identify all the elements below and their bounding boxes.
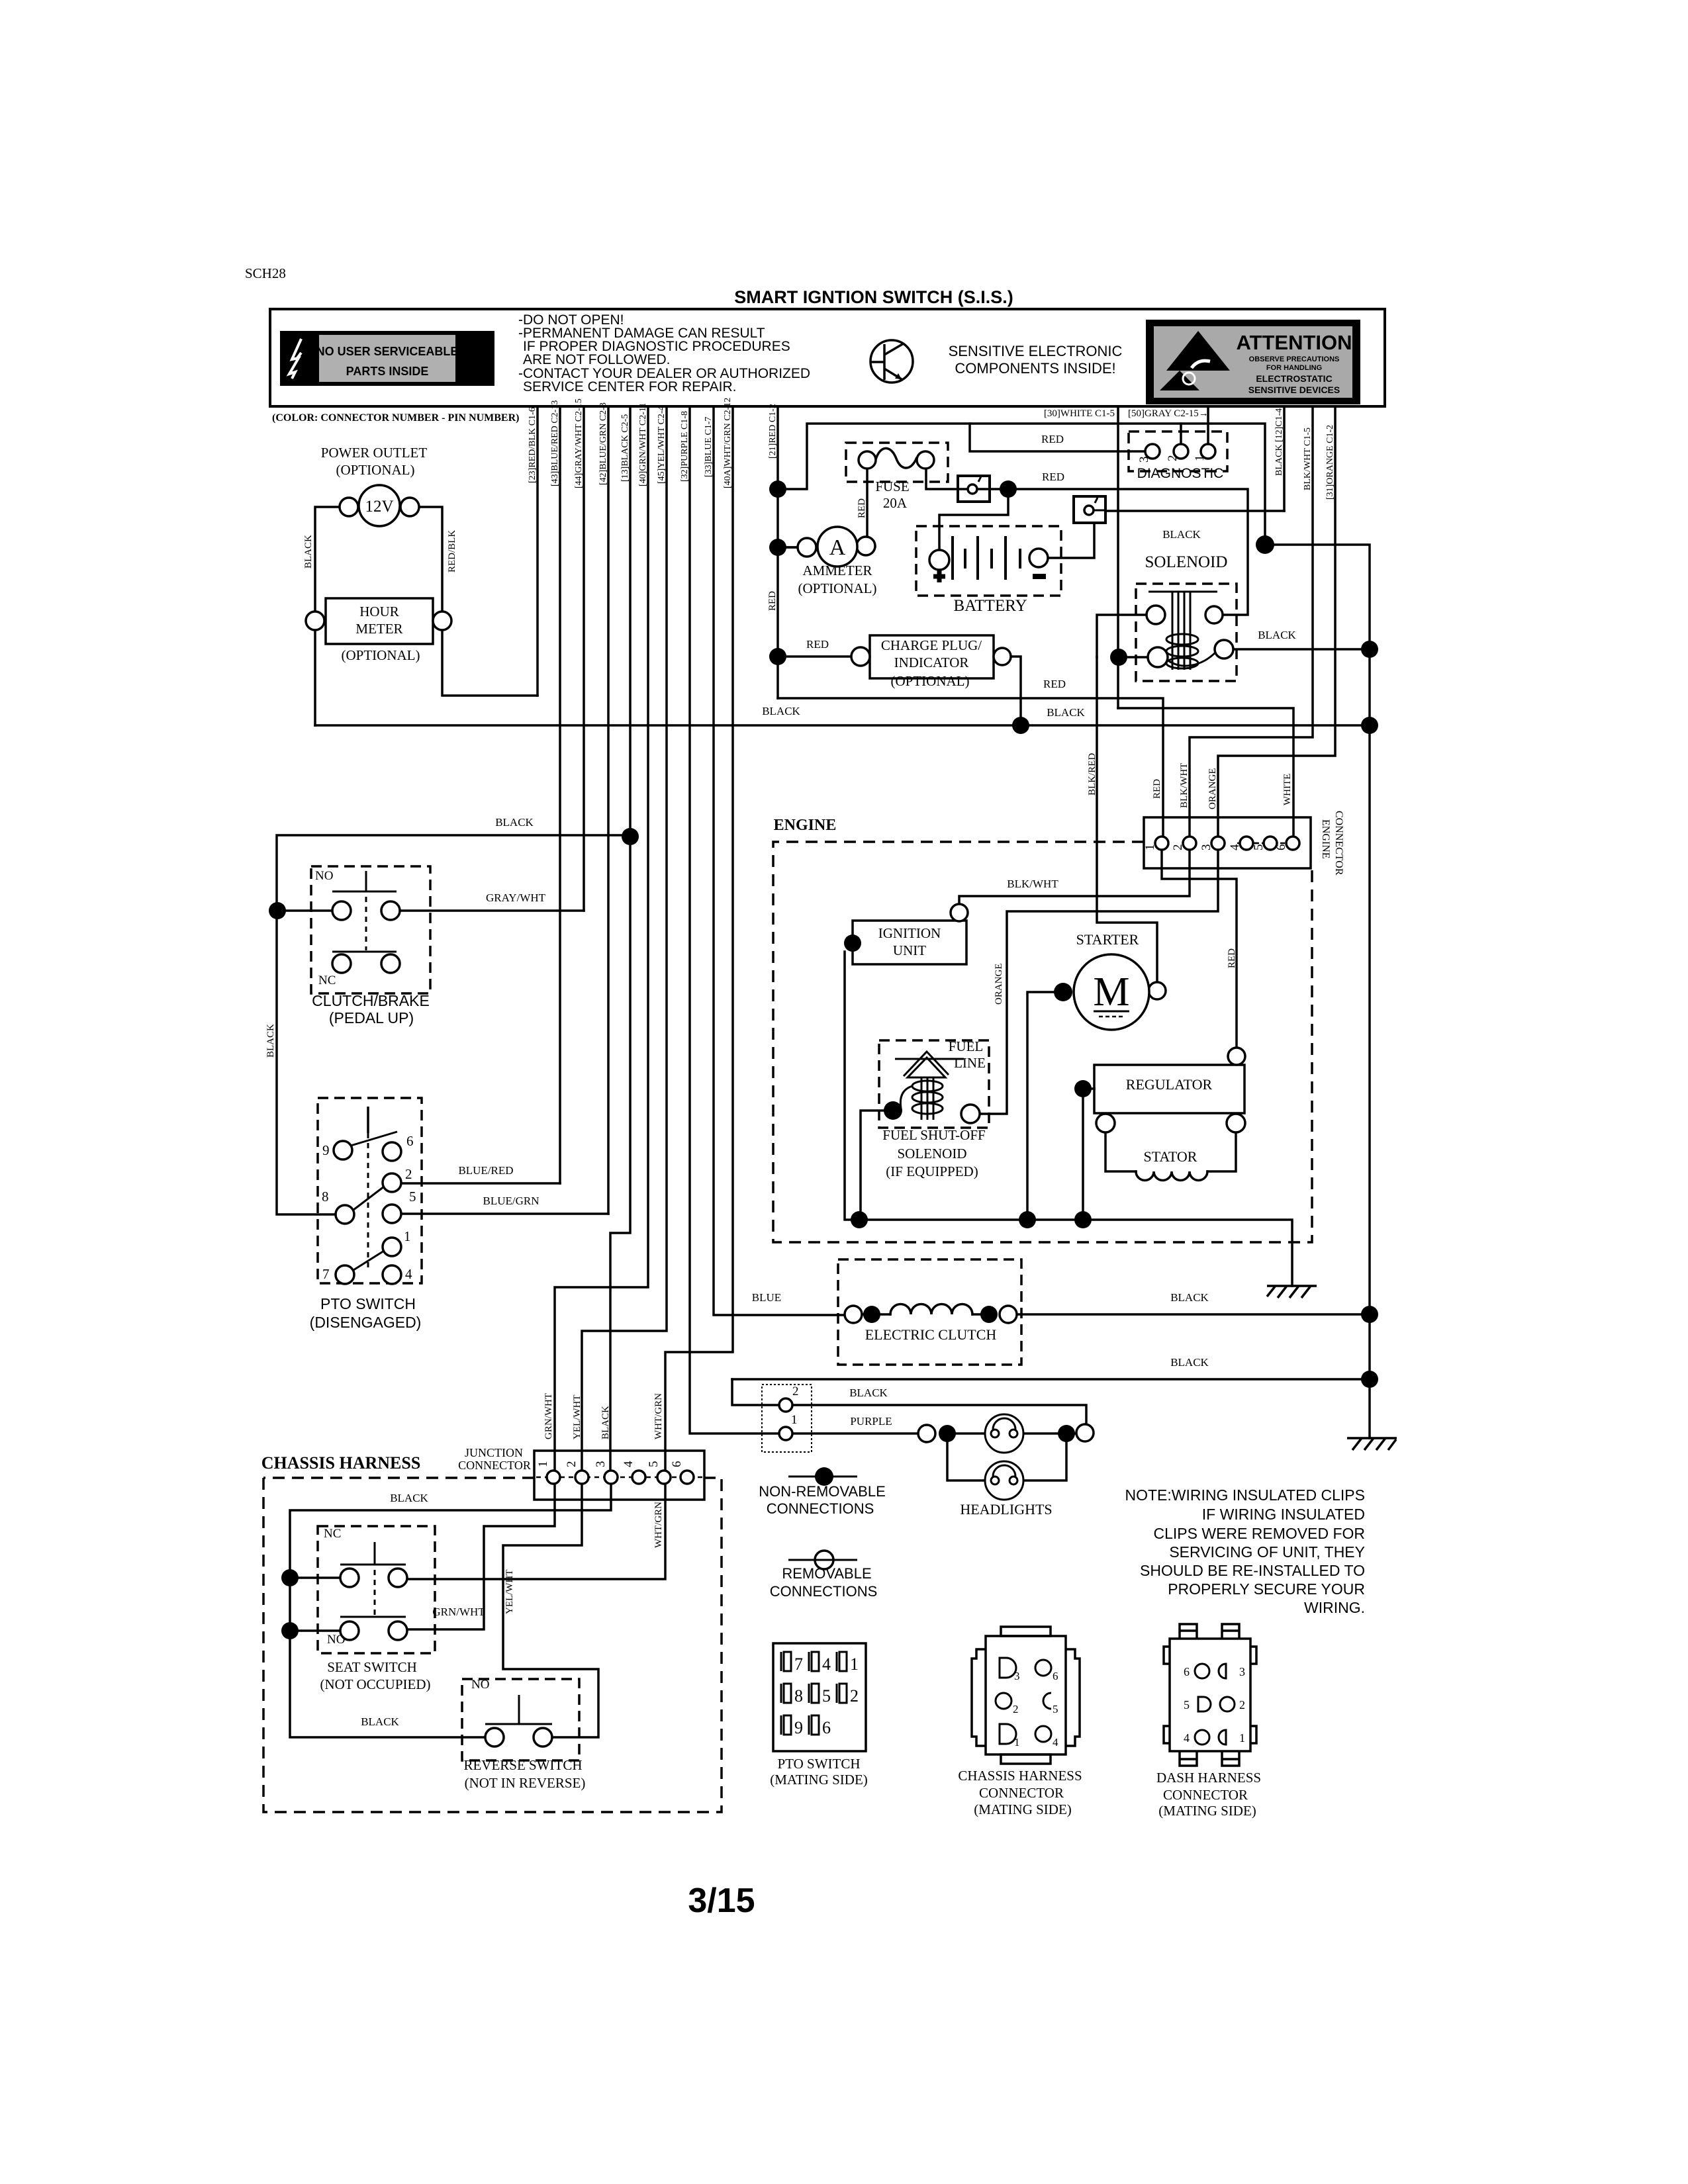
svg-text:6: 6 — [670, 1461, 684, 1468]
svg-text:[44]GRAY/WHT C2-15: [44]GRAY/WHT C2-15 — [574, 398, 584, 488]
svg-text:NON-REMOVABLE: NON-REMOVABLE — [759, 1483, 886, 1500]
svg-text:RED/BLK: RED/BLK — [447, 530, 457, 572]
svg-text:IF WIRING INSULATED: IF WIRING INSULATED — [1202, 1506, 1365, 1523]
svg-text:RED: RED — [1041, 433, 1064, 445]
svg-text:GRN/WHT: GRN/WHT — [432, 1606, 485, 1618]
svg-text:HOUR: HOUR — [359, 604, 399, 619]
svg-text:5: 5 — [409, 1189, 416, 1205]
svg-text:BATTERY: BATTERY — [953, 597, 1027, 615]
svg-text:DIAGNOSTIC: DIAGNOSTIC — [1137, 466, 1224, 481]
svg-text:6: 6 — [406, 1133, 414, 1149]
svg-text:FOR HANDLING: FOR HANDLING — [1266, 364, 1322, 372]
svg-text:3: 3 — [1239, 1665, 1245, 1678]
svg-text:BLACK: BLACK — [1170, 1291, 1209, 1304]
svg-text:NO USER SERVICEABLE: NO USER SERVICEABLE — [316, 345, 459, 358]
svg-text:6: 6 — [822, 1718, 831, 1737]
svg-text:4: 4 — [1184, 1731, 1190, 1745]
svg-text:RED: RED — [767, 591, 778, 611]
svg-text:(NOT OCCUPIED): (NOT OCCUPIED) — [320, 1676, 430, 1692]
svg-text:LINE: LINE — [954, 1055, 986, 1071]
svg-text:RED: RED — [1152, 779, 1162, 799]
svg-text:BLACK: BLACK — [849, 1387, 888, 1399]
svg-text:CHARGE PLUG/: CHARGE PLUG/ — [881, 637, 982, 653]
svg-text:SERVICE CENTER FOR REPAIR.: SERVICE CENTER FOR REPAIR. — [523, 379, 736, 394]
svg-text:A: A — [829, 535, 846, 560]
svg-text:(MATING SIDE): (MATING SIDE) — [770, 1772, 868, 1788]
svg-text:NO: NO — [327, 1633, 345, 1647]
svg-text:(OPTIONAL): (OPTIONAL) — [342, 647, 420, 663]
svg-text:SOLENOID: SOLENOID — [898, 1146, 967, 1161]
svg-text:SENSITIVE ELECTRONIC: SENSITIVE ELECTRONIC — [949, 343, 1123, 359]
svg-text:3/15: 3/15 — [688, 1882, 755, 1920]
svg-text:(OPTIONAL): (OPTIONAL) — [891, 673, 970, 689]
svg-text:BLUE/RED: BLUE/RED — [458, 1164, 513, 1177]
svg-text:BLK/WHT C1-5: BLK/WHT C1-5 — [1303, 428, 1313, 490]
svg-text:2: 2 — [1013, 1703, 1019, 1715]
svg-text:PTO SWITCH: PTO SWITCH — [320, 1295, 416, 1312]
svg-text:[42]BLUE/GRN C2-3: [42]BLUE/GRN C2-3 — [598, 402, 608, 485]
svg-text:BLK/RED: BLK/RED — [1087, 753, 1098, 796]
svg-text:(NOT IN REVERSE): (NOT IN REVERSE) — [465, 1775, 586, 1791]
svg-text:20A: 20A — [883, 495, 908, 511]
svg-text:PROPERLY SECURE YOUR: PROPERLY SECURE YOUR — [1168, 1580, 1365, 1598]
svg-text:4: 4 — [405, 1266, 412, 1282]
svg-text:IGNITION: IGNITION — [878, 925, 941, 941]
svg-text:SENSITIVE DEVICES: SENSITIVE DEVICES — [1248, 385, 1340, 395]
svg-text:CONNECTIONS: CONNECTIONS — [770, 1583, 878, 1600]
svg-text:SHOULD BE RE-INSTALLED TO: SHOULD BE RE-INSTALLED TO — [1140, 1562, 1365, 1579]
svg-text:PARTS INSIDE: PARTS INSIDE — [346, 365, 429, 378]
svg-text:9: 9 — [322, 1142, 330, 1158]
svg-text:9: 9 — [794, 1718, 803, 1737]
svg-text:[31]ORANGE C1-2: [31]ORANGE C1-2 — [1325, 425, 1335, 500]
svg-text:(PEDAL UP): (PEDAL UP) — [329, 1009, 414, 1026]
svg-text:1: 1 — [791, 1413, 798, 1427]
svg-text:12V: 12V — [365, 498, 393, 516]
svg-text:1: 1 — [1143, 844, 1157, 851]
svg-text:5: 5 — [1252, 844, 1266, 851]
svg-text:GRAY/WHT: GRAY/WHT — [486, 891, 546, 904]
svg-text:NO: NO — [471, 1678, 489, 1692]
svg-text:UNIT: UNIT — [893, 942, 926, 958]
svg-text:!: ! — [469, 341, 482, 383]
svg-text:SCH28: SCH28 — [245, 265, 286, 281]
svg-text:BLUE/GRN: BLUE/GRN — [483, 1195, 539, 1207]
svg-text:BLACK [12]C1-4: BLACK [12]C1-4 — [1274, 408, 1284, 476]
svg-text:[45]YEL/WHT C2-4: [45]YEL/WHT C2-4 — [657, 406, 667, 484]
svg-text:1: 1 — [1193, 455, 1207, 462]
svg-text:REVERSE SWITCH: REVERSE SWITCH — [463, 1757, 582, 1773]
svg-text:(DISENGAGED): (DISENGAGED) — [310, 1314, 422, 1331]
svg-text:OBSERVE PRECAUTIONS: OBSERVE PRECAUTIONS — [1249, 355, 1340, 363]
svg-text:3: 3 — [1137, 457, 1151, 463]
svg-text:BLACK: BLACK — [1047, 706, 1085, 719]
svg-text:YEL/WHT: YEL/WHT — [504, 1570, 515, 1614]
svg-text:METER: METER — [355, 621, 402, 637]
svg-text:REGULATOR: REGULATOR — [1126, 1076, 1213, 1093]
svg-text:BLACK: BLACK — [390, 1492, 428, 1504]
svg-text:[33]BLUE C1-7: [33]BLUE C1-7 — [704, 417, 714, 477]
svg-text:BLACK: BLACK — [600, 1406, 611, 1439]
svg-text:(OPTIONAL): (OPTIONAL) — [336, 462, 415, 478]
svg-text:STARTER: STARTER — [1076, 931, 1139, 948]
svg-text:SMART IGNTION SWITCH (S.I.S.): SMART IGNTION SWITCH (S.I.S.) — [734, 287, 1013, 307]
svg-text:ELECTRIC CLUTCH: ELECTRIC CLUTCH — [865, 1326, 997, 1343]
svg-text:AMMETER: AMMETER — [803, 563, 872, 578]
svg-text:REMOVABLE: REMOVABLE — [782, 1565, 871, 1582]
svg-text:2: 2 — [850, 1686, 859, 1706]
svg-text:RED: RED — [1042, 471, 1064, 483]
svg-text:NO: NO — [315, 869, 333, 883]
svg-text:SERVICING OF UNIT, THEY: SERVICING OF UNIT, THEY — [1169, 1543, 1365, 1561]
svg-text:BLK/WHT: BLK/WHT — [1179, 763, 1190, 808]
svg-text:ARE NOT FOLLOWED.: ARE NOT FOLLOWED. — [523, 352, 670, 367]
svg-text:RED: RED — [1227, 948, 1237, 968]
svg-text:5: 5 — [1053, 1703, 1058, 1715]
svg-text:RED: RED — [1043, 678, 1066, 690]
svg-text:3: 3 — [594, 1461, 608, 1468]
svg-text:HEADLIGHTS: HEADLIGHTS — [960, 1501, 1052, 1518]
svg-text:3: 3 — [1199, 844, 1213, 851]
svg-text:NOTE:WIRING INSULATED CLIPS: NOTE:WIRING INSULATED CLIPS — [1125, 1486, 1365, 1504]
svg-text:WIRING.: WIRING. — [1304, 1599, 1365, 1616]
svg-text:2: 2 — [792, 1385, 799, 1398]
svg-text:CONNECTOR: CONNECTOR — [1333, 811, 1344, 876]
svg-text:[30]WHITE C1-5: [30]WHITE C1-5 — [1044, 408, 1115, 419]
svg-text:1: 1 — [1239, 1731, 1245, 1745]
svg-text:5: 5 — [647, 1461, 661, 1468]
svg-text:[23]RED/BLK C1-6: [23]RED/BLK C1-6 — [528, 407, 538, 483]
svg-text:6: 6 — [1274, 844, 1288, 851]
svg-text:7: 7 — [322, 1266, 330, 1282]
svg-text:6: 6 — [1053, 1670, 1058, 1682]
svg-text:WHT/GRN: WHT/GRN — [653, 1502, 664, 1548]
svg-text:PURPLE: PURPLE — [850, 1415, 892, 1428]
svg-text:[32]PURPLE C1-8: [32]PURPLE C1-8 — [680, 411, 690, 482]
svg-text:ORANGE: ORANGE — [1207, 768, 1218, 810]
svg-text:BLK/WHT: BLK/WHT — [1007, 878, 1058, 890]
svg-text:NC: NC — [324, 1527, 341, 1541]
svg-text:GRN/WHT: GRN/WHT — [543, 1393, 554, 1439]
svg-text:BLACK: BLACK — [495, 816, 534, 829]
svg-text:4: 4 — [622, 1461, 635, 1467]
svg-text:BLACK: BLACK — [303, 535, 314, 569]
svg-text:1: 1 — [404, 1228, 411, 1244]
svg-text:2: 2 — [1166, 455, 1180, 462]
svg-text:CONNECTIONS: CONNECTIONS — [767, 1500, 874, 1517]
svg-text:BLACK: BLACK — [265, 1024, 276, 1058]
svg-text:SEAT SWITCH: SEAT SWITCH — [327, 1659, 417, 1675]
svg-text:[21]RED C1-2: [21]RED C1-2 — [768, 404, 778, 459]
svg-text:3: 3 — [1014, 1670, 1020, 1682]
svg-text:(OPTIONAL): (OPTIONAL) — [798, 580, 877, 596]
svg-text:PTO SWITCH: PTO SWITCH — [777, 1756, 860, 1772]
svg-text:WHITE: WHITE — [1282, 774, 1293, 805]
svg-text:COMPONENTS INSIDE!: COMPONENTS INSIDE! — [955, 360, 1115, 377]
svg-text:7: 7 — [794, 1655, 803, 1674]
svg-text:5: 5 — [822, 1686, 831, 1706]
svg-text:FUEL SHUT-OFF: FUEL SHUT-OFF — [882, 1127, 985, 1143]
svg-text:JUNCTION: JUNCTION — [465, 1446, 523, 1459]
svg-text:1: 1 — [536, 1461, 550, 1468]
svg-text:2: 2 — [1171, 844, 1185, 851]
svg-text:[50]GRAY C2-15→: [50]GRAY C2-15→ — [1128, 408, 1209, 419]
svg-text:BLACK: BLACK — [1258, 629, 1296, 641]
svg-text:CHASSIS HARNESS: CHASSIS HARNESS — [261, 1453, 421, 1473]
svg-text:RED: RED — [857, 498, 867, 518]
svg-text:ATTENTION: ATTENTION — [1236, 331, 1352, 354]
svg-text:BLACK: BLACK — [1170, 1356, 1209, 1369]
svg-text:CLUTCH/BRAKE: CLUTCH/BRAKE — [312, 992, 430, 1009]
svg-text:4: 4 — [1053, 1736, 1058, 1749]
svg-text:CLIPS WERE REMOVED FOR: CLIPS WERE REMOVED FOR — [1154, 1525, 1365, 1542]
svg-text:POWER OUTLET: POWER OUTLET — [321, 445, 428, 461]
svg-text:FUSE: FUSE — [875, 478, 909, 494]
svg-text:STATOR: STATOR — [1144, 1148, 1197, 1165]
svg-text:ORANGE: ORANGE — [994, 964, 1004, 1005]
svg-text:SOLENOID: SOLENOID — [1145, 553, 1228, 571]
svg-text:RED: RED — [806, 638, 829, 651]
svg-text:CONNECTOR: CONNECTOR — [1163, 1787, 1248, 1803]
svg-text:2: 2 — [565, 1461, 579, 1468]
svg-text:[40A]WHT/GRN C2-12: [40A]WHT/GRN C2-12 — [723, 398, 733, 488]
svg-text:DASH HARNESS: DASH HARNESS — [1156, 1770, 1261, 1786]
svg-text:2: 2 — [1239, 1698, 1245, 1711]
svg-text:5: 5 — [1184, 1698, 1190, 1711]
svg-text:(COLOR: CONNECTOR NUMBER - PIN: (COLOR: CONNECTOR NUMBER - PIN NUMBER) — [272, 412, 519, 424]
svg-text:4: 4 — [1228, 844, 1242, 850]
svg-text:2: 2 — [405, 1166, 412, 1182]
svg-text:BLACK: BLACK — [762, 705, 800, 717]
svg-text:WHT/GRN: WHT/GRN — [653, 1393, 664, 1439]
svg-text:BLACK: BLACK — [361, 1715, 399, 1728]
svg-text:M: M — [1093, 970, 1129, 1015]
svg-text:1: 1 — [1014, 1736, 1020, 1749]
svg-text:NC: NC — [318, 974, 336, 987]
svg-text:INDICATOR: INDICATOR — [894, 655, 969, 670]
svg-text:(MATING SIDE): (MATING SIDE) — [1158, 1803, 1256, 1819]
svg-text:8: 8 — [794, 1686, 803, 1706]
svg-text:ENGINE: ENGINE — [1320, 819, 1331, 859]
svg-text:BLUE: BLUE — [752, 1291, 781, 1304]
svg-text:(IF EQUIPPED): (IF EQUIPPED) — [886, 1163, 978, 1179]
svg-text:CHASSIS HARNESS: CHASSIS HARNESS — [958, 1768, 1082, 1784]
svg-text:1: 1 — [850, 1655, 859, 1674]
svg-text:CONNECTOR: CONNECTOR — [979, 1785, 1064, 1801]
svg-text:BLACK: BLACK — [1162, 528, 1201, 541]
svg-text:6: 6 — [1184, 1665, 1190, 1678]
svg-text:[13]BLACK C2-5: [13]BLACK C2-5 — [620, 414, 630, 482]
svg-text:4: 4 — [822, 1655, 831, 1674]
svg-text:FUEL: FUEL — [949, 1038, 984, 1054]
svg-text:ENGINE: ENGINE — [774, 817, 837, 834]
svg-text:(MATING SIDE): (MATING SIDE) — [974, 1801, 1072, 1817]
svg-text:[43]BLUE/RED C2-13: [43]BLUE/RED C2-13 — [550, 400, 560, 486]
svg-text:YEL/WHT: YEL/WHT — [572, 1395, 583, 1439]
svg-text:ELECTROSTATIC: ELECTROSTATIC — [1256, 373, 1332, 384]
svg-text:[40]GRN/WHT C2-11: [40]GRN/WHT C2-11 — [638, 403, 648, 486]
svg-text:CONNECTOR: CONNECTOR — [458, 1459, 531, 1472]
svg-text:8: 8 — [322, 1189, 329, 1205]
